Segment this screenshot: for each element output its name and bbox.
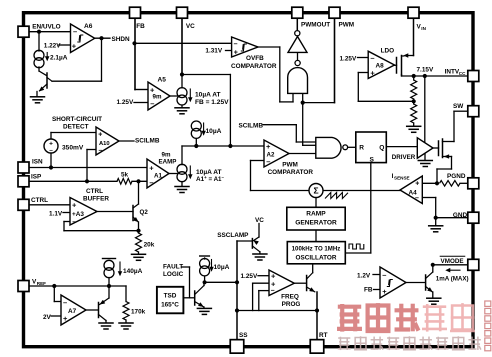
svg-text:FB = 1.25V: FB = 1.25V — [195, 99, 229, 106]
svg-text:–: – — [63, 298, 67, 307]
svg-text:A1+ = A1–: A1+ = A1– — [196, 175, 224, 183]
svg-text:–: – — [234, 41, 238, 48]
svg-text:+: + — [72, 201, 77, 210]
svg-text:350mV: 350mV — [62, 144, 84, 151]
svg-text:Q: Q — [379, 144, 384, 151]
svg-text:–: – — [370, 53, 374, 62]
svg-text:PWM: PWM — [339, 22, 355, 29]
svg-text:A10: A10 — [99, 141, 110, 147]
svg-text:+: + — [266, 142, 271, 151]
svg-text:FREQ: FREQ — [281, 293, 299, 300]
svg-text:PGND: PGND — [447, 173, 466, 180]
svg-text:TSD: TSD — [164, 292, 177, 299]
svg-text:PROG: PROG — [282, 301, 301, 308]
svg-text:10µA: 10µA — [214, 264, 230, 271]
svg-text:COMPARATOR: COMPARATOR — [268, 169, 314, 176]
svg-text:2.1µA: 2.1µA — [50, 55, 68, 62]
svg-text:FB: FB — [136, 23, 145, 30]
svg-text:CC: CC — [459, 71, 466, 76]
svg-text:A6: A6 — [84, 23, 93, 30]
svg-text:2V: 2V — [43, 314, 52, 321]
svg-text:PWM: PWM — [282, 162, 298, 169]
svg-text:1.2V: 1.2V — [357, 273, 371, 280]
svg-text:Σ: Σ — [313, 186, 318, 196]
svg-text:A8: A8 — [376, 62, 385, 69]
svg-text:–: – — [382, 271, 386, 280]
svg-text:1mA (MAX): 1mA (MAX) — [436, 275, 469, 282]
svg-text:140µA: 140µA — [123, 268, 143, 275]
svg-text:–: – — [49, 147, 53, 154]
svg-text:165°C: 165°C — [161, 300, 179, 308]
svg-text:R: R — [359, 144, 364, 151]
svg-text:–: – — [266, 157, 270, 166]
svg-text:–: – — [271, 288, 275, 295]
svg-text:LOGIC: LOGIC — [163, 271, 184, 278]
svg-text:IN: IN — [421, 26, 426, 31]
svg-text:FB: FB — [364, 287, 373, 294]
svg-text:1.25V: 1.25V — [241, 273, 258, 280]
svg-text:100kHz TO 1MHz: 100kHz TO 1MHz — [292, 245, 341, 252]
svg-text:Q2: Q2 — [140, 209, 149, 216]
svg-text:OVFB: OVFB — [246, 55, 264, 62]
svg-text:1.1V: 1.1V — [49, 210, 63, 217]
svg-text:COMPARATOR: COMPARATOR — [231, 63, 277, 70]
svg-text:–: – — [149, 178, 153, 187]
svg-text:REF: REF — [37, 281, 46, 286]
svg-text:GND: GND — [453, 212, 468, 219]
svg-text:10µA: 10µA — [206, 128, 222, 135]
svg-text:1.25V: 1.25V — [340, 55, 357, 62]
svg-text:ISN: ISN — [32, 159, 43, 166]
svg-text:SENSE: SENSE — [394, 176, 410, 181]
svg-text:+: + — [72, 42, 77, 51]
svg-text:ISP: ISP — [31, 173, 42, 180]
svg-text:DRIVER: DRIVER — [392, 154, 416, 161]
svg-text:+: + — [370, 69, 375, 78]
svg-text:SCILMB: SCILMB — [239, 123, 264, 130]
svg-text:+: + — [415, 180, 419, 187]
svg-text:170k: 170k — [131, 308, 146, 315]
svg-text:OSCILLATOR: OSCILLATOR — [296, 255, 337, 262]
svg-text:FAULT: FAULT — [163, 263, 183, 270]
svg-text:A1: A1 — [154, 172, 162, 179]
svg-text:SCILMB: SCILMB — [135, 138, 160, 145]
svg-text:SSCLAMP: SSCLAMP — [217, 232, 249, 239]
svg-text:RAMP: RAMP — [306, 211, 326, 218]
svg-text:A7: A7 — [68, 308, 77, 315]
svg-text:–: – — [150, 99, 154, 108]
svg-text:+: + — [382, 287, 387, 296]
svg-text:+: + — [63, 314, 68, 323]
svg-text:7.15V: 7.15V — [417, 67, 434, 74]
svg-text:20k: 20k — [144, 241, 155, 248]
svg-text:LDO: LDO — [381, 47, 395, 54]
svg-text:SHDN: SHDN — [112, 36, 130, 43]
svg-text:1.22V: 1.22V — [44, 43, 61, 50]
svg-text:CTRL: CTRL — [86, 188, 103, 195]
svg-text:+: + — [98, 131, 102, 138]
svg-text:SHORT-CIRCUIT: SHORT-CIRCUIT — [52, 116, 102, 123]
svg-text:1.31V: 1.31V — [205, 47, 222, 54]
svg-text:10µA AT: 10µA AT — [195, 91, 221, 98]
svg-text:EAMP: EAMP — [159, 158, 177, 165]
svg-text:A5: A5 — [158, 77, 167, 84]
svg-text:VC: VC — [186, 23, 195, 30]
svg-text:SW: SW — [453, 103, 464, 110]
svg-text:DETECT: DETECT — [63, 124, 89, 131]
svg-text:VMODE: VMODE — [441, 258, 464, 265]
svg-text:–: – — [415, 195, 419, 202]
svg-text:–: – — [73, 27, 77, 36]
svg-text:1.25V: 1.25V — [117, 99, 134, 106]
svg-text:–: – — [72, 217, 76, 226]
svg-text:INTV: INTV — [445, 68, 460, 75]
svg-text:BUFFER: BUFFER — [83, 195, 109, 202]
svg-text:+: + — [149, 164, 154, 173]
svg-text:+: + — [234, 50, 238, 57]
svg-text:10µA AT: 10µA AT — [196, 169, 222, 176]
svg-text:VC: VC — [255, 217, 264, 224]
svg-text:EN/UVLO: EN/UVLO — [32, 24, 60, 31]
svg-text:S: S — [370, 156, 375, 163]
svg-text:5k: 5k — [121, 171, 129, 178]
svg-text:RT: RT — [319, 332, 328, 339]
svg-text:PWMOUT: PWMOUT — [301, 22, 330, 29]
svg-text:GENERATOR: GENERATOR — [295, 220, 337, 227]
svg-text:–: – — [99, 148, 103, 155]
svg-text:CTRL: CTRL — [31, 197, 48, 204]
svg-text:SS: SS — [239, 332, 248, 339]
